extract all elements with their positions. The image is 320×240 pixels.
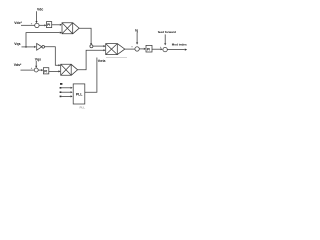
wire Vqs to NOT gate G1 bbox=[22, 46, 35, 48]
wire S3 output to Mod index bbox=[167, 49, 185, 51]
mux M2 dq block bbox=[61, 64, 71, 75]
wire Vqs label down into sum S4 bbox=[35, 61, 37, 66]
wire M1 output right then down to sum S5 bbox=[79, 28, 91, 44]
sum S1 bbox=[35, 23, 39, 27]
wire S4 to PI2 bbox=[38, 69, 41, 71]
svg-text:Iq: Iq bbox=[135, 28, 138, 32]
svg-text:PI: PI bbox=[44, 69, 47, 73]
svg-text:feed forward: feed forward bbox=[158, 30, 176, 34]
gate G1 bubble bbox=[42, 46, 45, 49]
sum S5 junction circle bbox=[90, 45, 93, 48]
gate G1 inverter triangle bbox=[37, 43, 42, 50]
mux M3 dq0-abc block bbox=[106, 44, 118, 55]
wire PI1 to mux M1 input 1 bbox=[52, 24, 60, 26]
block PLL bbox=[73, 84, 85, 104]
node input tick b bbox=[60, 91, 62, 93]
svg-text:Vds*: Vds* bbox=[14, 63, 22, 67]
block PI1 bbox=[47, 22, 52, 28]
wire PI2 to mux M2 input 2 bbox=[49, 70, 59, 72]
node branch junction on Vqs wire bbox=[25, 46, 27, 48]
wire Vds* to sum S4 bbox=[21, 69, 34, 71]
svg-text:PLL: PLL bbox=[76, 93, 82, 97]
wire input a to PLL bbox=[61, 87, 70, 89]
wire Iq down into sum S2 bbox=[136, 32, 138, 42]
svg-text:Vdc*: Vdc* bbox=[14, 21, 22, 25]
node tick above input a bbox=[60, 83, 62, 85]
svg-text:Vqs: Vqs bbox=[14, 42, 20, 46]
wire branch up and right to mux M1 input 2 bbox=[26, 33, 60, 47]
wire M3 output to sum S2 bbox=[125, 48, 135, 50]
sum S4 bbox=[34, 68, 38, 72]
mux M1 dq block bbox=[62, 23, 73, 34]
svg-text:Vqs: Vqs bbox=[35, 57, 41, 61]
wire S1 to PI1 bbox=[39, 24, 44, 26]
svg-text:Mod index: Mod index bbox=[172, 43, 187, 47]
node input tick a bbox=[60, 87, 62, 89]
wire input c to PLL bbox=[61, 95, 70, 97]
wire faint label line under mux M3 bbox=[106, 57, 127, 59]
sum S3 bbox=[163, 47, 167, 51]
wire M2 output right then up then right to mux M3 input 2 bbox=[78, 50, 104, 70]
svg-text:Vdc: Vdc bbox=[37, 8, 43, 12]
wire S2 to PI3 bbox=[139, 48, 144, 50]
wire PI3 to sum S3 bbox=[152, 48, 161, 50]
wire Vdc* to sum S1 bbox=[21, 24, 35, 26]
block PI2 bbox=[43, 68, 48, 74]
node input tick c bbox=[60, 96, 62, 98]
wire PLL output right then up to theta line bbox=[85, 58, 97, 93]
svg-text:theta: theta bbox=[98, 59, 106, 63]
svg-text:PI: PI bbox=[47, 23, 50, 27]
svg-text:PI: PI bbox=[147, 47, 150, 51]
wire G1 output right then down then right to mux M2 input 1 bbox=[45, 47, 59, 65]
block PI3 bbox=[146, 45, 152, 52]
svg-text:PLL: PLL bbox=[80, 106, 86, 110]
wire Vdc down into sum S1 bbox=[36, 11, 38, 21]
wire S5 to mux M3 input 1 bbox=[93, 45, 104, 47]
sum S2 bbox=[135, 47, 139, 51]
wire input b to PLL bbox=[61, 91, 70, 93]
wire feed forward down into sum S3 bbox=[164, 34, 166, 43]
